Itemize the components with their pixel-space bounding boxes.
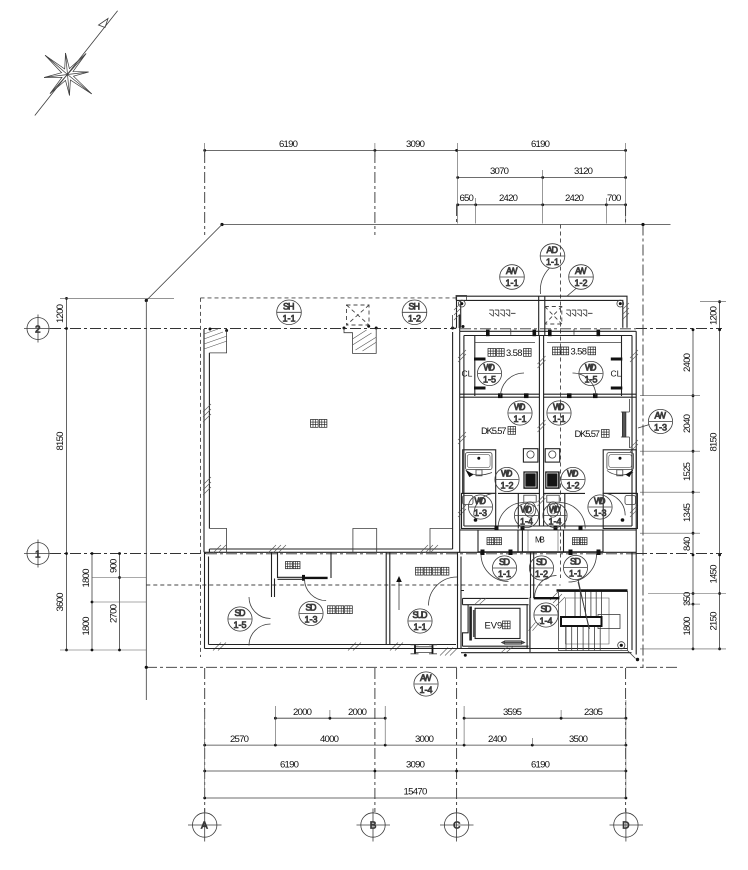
EV area hatches <box>474 598 539 653</box>
svg-text:WD: WD <box>514 402 526 412</box>
right unit: CL partition <box>621 336 623 397</box>
svg-text:3090: 3090 <box>406 139 425 150</box>
symbol WD 1-5 left <box>477 361 501 385</box>
corridor walls right section <box>461 591 530 653</box>
svg-text:2000: 2000 <box>348 707 367 718</box>
svg-text:3.58: 3.58 <box>571 346 588 357</box>
unit entry door posts <box>495 526 583 531</box>
svg-text:6190: 6190 <box>279 139 298 150</box>
pillar B1 (bottom middle) <box>353 529 377 553</box>
pillar C1 (bottom right of store) <box>430 529 453 553</box>
svg-text:1-2: 1-2 <box>575 278 588 288</box>
balcony corner notch <box>456 295 467 300</box>
wall section hatches <box>458 350 638 517</box>
store left wall window hatches <box>203 404 211 495</box>
svg-text:1-5: 1-5 <box>585 375 598 385</box>
svg-text:WD: WD <box>553 402 565 412</box>
svg-text:1-1: 1-1 <box>514 414 527 424</box>
line 6190/3090/6190 <box>205 770 626 772</box>
symbol WD 1-3 left <box>468 495 492 519</box>
svg-text:1-1: 1-1 <box>498 569 511 579</box>
left unit: bedroom/DK wall <box>460 394 540 397</box>
EV label <box>485 620 511 631</box>
line 15470 <box>205 797 626 799</box>
left toilet <box>524 495 536 502</box>
svg-text:SH: SH <box>409 302 421 312</box>
line 2570/4000/3000/2400/3500 <box>205 744 626 746</box>
MB inner lines <box>528 530 558 552</box>
svg-text:1-1: 1-1 <box>283 314 296 324</box>
svg-text:CL: CL <box>462 369 473 379</box>
extension verticals <box>274 706 276 745</box>
svg-text:1-2: 1-2 <box>501 481 514 491</box>
svg-text:2400: 2400 <box>488 734 507 745</box>
svg-text:2420: 2420 <box>499 193 518 204</box>
symbol SD 1-5 <box>228 607 252 631</box>
balcony label right <box>566 310 592 317</box>
apartment outer walls <box>460 331 637 335</box>
balcony railing <box>457 296 628 328</box>
dashed setback lines <box>201 297 457 299</box>
svg-text:1800: 1800 <box>81 569 92 588</box>
store left wall <box>204 329 209 552</box>
svg-text:2570: 2570 <box>230 734 249 745</box>
svg-text:SD: SD <box>499 557 511 567</box>
svg-text:D: D <box>622 821 629 832</box>
svg-text:2150: 2150 <box>709 612 720 631</box>
bottom outer wall left section <box>205 645 462 649</box>
grid 2 horizontal <box>50 328 456 330</box>
stairs landing rail <box>598 615 620 629</box>
svg-text:3090: 3090 <box>406 760 425 771</box>
svg-text:6190: 6190 <box>280 760 299 771</box>
bottom outer wall hatches <box>213 643 458 656</box>
genkan door posts <box>481 550 601 556</box>
svg-text:WD: WD <box>521 505 533 515</box>
grid circle D <box>610 809 644 842</box>
unit entry door arcs <box>498 503 524 529</box>
compass north arrow <box>35 11 118 116</box>
svg-text:1-2: 1-2 <box>567 481 580 491</box>
svg-text:EV9: EV9 <box>485 620 503 631</box>
stairs corner hatch <box>550 591 565 606</box>
svg-text:1-1: 1-1 <box>414 622 427 632</box>
svg-text:SD: SD <box>541 604 553 614</box>
right boundary grid vertical <box>642 225 644 669</box>
svg-text:B: B <box>370 821 377 832</box>
pillar A1 <box>209 529 226 553</box>
room label 洋室3.58帖 right <box>553 346 596 357</box>
left boundary <box>145 301 147 701</box>
grid circle 2 <box>24 315 52 343</box>
svg-text:3595: 3595 <box>503 707 522 718</box>
svg-text:1-4: 1-4 <box>540 616 553 626</box>
svg-text:DK5.57: DK5.57 <box>575 428 601 439</box>
symbol AW 1-2 <box>569 265 594 290</box>
grid A vertical <box>204 152 206 235</box>
balcony divider / PS shaft <box>539 296 545 335</box>
stairs <box>559 592 628 651</box>
svg-text:15470: 15470 <box>404 787 428 798</box>
left stove <box>523 471 538 488</box>
svg-text:1200: 1200 <box>55 304 66 323</box>
room label 共用玄関 <box>416 567 449 575</box>
symbol SH 1-1 <box>277 300 302 325</box>
symbol WD 1-3 right <box>588 495 612 519</box>
grid A wall continues down <box>205 553 209 649</box>
bedroom wall door posts <box>498 393 598 398</box>
inner dim 1800/1800 <box>91 554 93 651</box>
SD1-1 leader to stairs <box>578 579 589 629</box>
left toilet room walls <box>498 493 539 528</box>
svg-text:1-4: 1-4 <box>549 517 562 527</box>
symbol SD 1-2 <box>529 556 553 580</box>
svg-text:CL: CL <box>611 369 622 379</box>
svg-text:DK5.57: DK5.57 <box>481 425 507 436</box>
corridor door arcs <box>481 554 509 582</box>
left washroom <box>462 493 496 528</box>
symbol AW 1-1 <box>500 265 525 290</box>
symbol WD 1-1 left <box>508 401 532 425</box>
grid D vertical <box>625 205 627 224</box>
svg-text:1-1: 1-1 <box>569 569 582 579</box>
svg-text:2: 2 <box>35 325 41 336</box>
svg-text:1-3: 1-3 <box>654 423 667 433</box>
svg-text:SD: SD <box>570 557 582 567</box>
elevator sill <box>505 641 522 644</box>
svg-text:1800: 1800 <box>81 617 92 636</box>
left unit bath room <box>463 450 496 494</box>
room label 盤室 <box>286 562 301 569</box>
svg-text:6190: 6190 <box>531 760 550 771</box>
kyoyo-genkan door arc <box>429 577 458 606</box>
svg-text:3600: 3600 <box>55 593 66 612</box>
window recess lines <box>475 342 622 344</box>
symbol SD 1-1 left <box>492 556 516 580</box>
svg-text:2000: 2000 <box>293 707 312 718</box>
hall/kyoyo divider wall <box>531 553 534 599</box>
stairs section diagonal <box>578 582 590 629</box>
svg-text:WD: WD <box>475 496 487 506</box>
CL door posts <box>474 358 622 390</box>
svg-text:1450: 1450 <box>709 565 720 584</box>
storefront step at C2 <box>453 315 459 328</box>
svg-text:700: 700 <box>607 193 621 204</box>
svg-text:WD: WD <box>594 496 606 506</box>
bottom right corner cut <box>628 651 636 659</box>
grid 1 horizontal <box>50 553 206 555</box>
grid C vertical <box>456 205 458 224</box>
svg-text:1-5: 1-5 <box>483 375 496 385</box>
AD leader arc <box>540 268 549 294</box>
room label DK5.57帖 right <box>575 428 610 439</box>
room label 風除室 <box>328 606 353 614</box>
svg-text:C: C <box>453 821 460 832</box>
svg-text:WD: WD <box>484 363 496 373</box>
dashed X box top <box>347 305 370 325</box>
store/apartment party wall <box>453 315 460 552</box>
svg-text:1-3: 1-3 <box>474 508 487 518</box>
svg-text:3500: 3500 <box>569 734 588 745</box>
bedroom door arcs <box>501 373 597 397</box>
left tub <box>465 453 492 470</box>
right unit: bedroom/DK wall <box>544 394 637 397</box>
dim line 650/2420/2420/700 <box>458 204 626 206</box>
left kitchen sink <box>523 449 538 462</box>
symbol AW 1-3 <box>648 409 672 433</box>
svg-text:SD: SD <box>536 557 548 567</box>
right unit bath room <box>603 450 636 494</box>
svg-text:840: 840 <box>682 537 693 551</box>
right outer wall lower <box>632 530 636 655</box>
bottom site boundary dash-dot <box>146 666 680 668</box>
svg-text:1-5: 1-5 <box>234 620 247 630</box>
up arrow <box>398 580 400 610</box>
玄関 label right <box>573 538 588 545</box>
svg-text:1-3: 1-3 <box>594 508 607 518</box>
svg-text:1-2: 1-2 <box>408 314 421 324</box>
dim line 6190/3090/6190 <box>205 149 626 151</box>
svg-text:1: 1 <box>35 550 41 561</box>
svg-text:1-1: 1-1 <box>546 257 559 267</box>
svg-text:8150: 8150 <box>55 432 66 451</box>
svg-text:650: 650 <box>460 193 474 204</box>
store bottom wall <box>204 549 636 552</box>
玄関 label left <box>487 538 502 545</box>
svg-text:1200: 1200 <box>709 306 720 325</box>
bansitsu door arc <box>305 579 327 601</box>
pillar A2 <box>209 331 226 353</box>
entrance window in bottom wall <box>415 647 434 653</box>
symbol WD 1-2 right <box>561 467 585 491</box>
grid B vertical <box>374 152 376 235</box>
right toilet <box>547 495 559 502</box>
grid circle C <box>440 809 474 842</box>
dim line 3070/3120 <box>458 177 626 179</box>
svg-text:SD: SD <box>235 608 247 618</box>
svg-text:MB: MB <box>535 536 545 545</box>
symbol WD 1-4 left <box>514 503 538 527</box>
top boundary line <box>222 224 671 226</box>
svg-text:3120: 3120 <box>574 166 593 177</box>
diagonal corner <box>146 225 222 301</box>
balcony corner posts <box>458 300 465 307</box>
extension lines <box>457 143 459 224</box>
svg-text:AW: AW <box>575 266 587 276</box>
symbol AW 1-4 <box>414 672 438 696</box>
right outer wall window <box>622 412 626 437</box>
bansitsu room <box>278 553 332 580</box>
symbol SD 1-1 right <box>563 555 587 579</box>
right stove <box>545 471 560 488</box>
left unit: CL partition <box>474 336 476 397</box>
store bottom wall hatches <box>213 545 438 553</box>
room SD1-5 right wall with double door <box>271 553 273 598</box>
svg-text:WD: WD <box>501 469 513 479</box>
room label DK5.57帖 left <box>481 425 516 436</box>
right washroom <box>603 493 637 528</box>
svg-text:2305: 2305 <box>584 707 603 718</box>
svg-text:1525: 1525 <box>682 462 693 481</box>
party wall between units <box>539 336 543 527</box>
店舗 label <box>311 420 327 428</box>
newel post <box>618 642 625 649</box>
svg-text:3.58: 3.58 <box>506 347 523 358</box>
PS dashed X box <box>545 307 562 325</box>
bottom outer wall right section <box>461 649 632 653</box>
symbol AD 1-1 <box>540 244 565 269</box>
svg-text:2040: 2040 <box>682 414 693 433</box>
stairs top wall <box>557 589 628 591</box>
pillar B2 (top middle) <box>344 328 376 353</box>
svg-text:AW: AW <box>506 266 518 276</box>
svg-text:900: 900 <box>109 559 120 573</box>
fujyoshitsu walls <box>275 553 390 645</box>
EV door bars <box>469 607 472 641</box>
grid circle A <box>188 809 222 842</box>
svg-text:WD: WD <box>567 469 579 479</box>
svg-text:1345: 1345 <box>682 503 693 522</box>
svg-text:1-4: 1-4 <box>520 517 533 527</box>
sliding door posts on top wall <box>486 330 600 337</box>
svg-text:3070: 3070 <box>490 166 509 177</box>
svg-text:SH: SH <box>283 302 295 312</box>
symbol WD 1-1 right <box>547 401 571 425</box>
EV room <box>463 598 529 604</box>
symbol WD 1-4 right <box>543 503 567 527</box>
svg-text:2400: 2400 <box>682 353 693 372</box>
right toilet room walls <box>544 493 585 528</box>
dashed section line vertical <box>560 225 562 579</box>
svg-text:1800: 1800 <box>682 617 693 636</box>
svg-text:1-2: 1-2 <box>535 569 548 579</box>
symbol WD 1-5 right <box>579 361 603 385</box>
symbol WD 1-2 left <box>495 467 519 491</box>
left bath lower part <box>466 471 492 476</box>
EV cab <box>475 608 520 638</box>
svg-text:SD: SD <box>306 603 318 613</box>
grid circle 1 <box>24 540 52 568</box>
svg-text:WD: WD <box>585 363 597 373</box>
grid circle B <box>357 809 391 842</box>
svg-text:1-1: 1-1 <box>553 414 566 424</box>
svg-text:SUD: SUD <box>413 610 429 620</box>
svg-text:WD: WD <box>549 505 561 515</box>
svg-text:1-3: 1-3 <box>305 615 318 625</box>
symbol SUD 1-1 <box>408 609 432 633</box>
dashed section line horizontal <box>146 584 560 586</box>
svg-text:1-1: 1-1 <box>506 278 519 288</box>
svg-text:2700: 2700 <box>109 604 120 623</box>
svg-text:6190: 6190 <box>531 139 550 150</box>
svg-text:AW: AW <box>420 673 432 683</box>
room label 洋室3.58帖 left <box>488 347 531 358</box>
symbol SH 1-2 <box>402 300 427 325</box>
svg-text:AD: AD <box>547 245 559 255</box>
svg-text:AW: AW <box>655 411 667 421</box>
svg-text:A: A <box>201 821 208 832</box>
store top storefront dots <box>209 325 465 332</box>
svg-text:4000: 4000 <box>320 734 339 745</box>
line 2000/2000 and 3595/2305 <box>275 717 385 719</box>
balcony corner hatches <box>454 303 629 320</box>
inner dim 900/2700 <box>119 554 121 651</box>
svg-text:8150: 8150 <box>709 433 720 452</box>
right kitchen sink <box>545 449 560 462</box>
symbol SD 1-3 <box>299 601 323 625</box>
symbol SD 1-4 <box>534 603 558 627</box>
svg-text:1-4: 1-4 <box>420 685 433 695</box>
balcony label left <box>489 310 515 317</box>
svg-text:3000: 3000 <box>415 734 434 745</box>
svg-text:2420: 2420 <box>565 193 584 204</box>
kyouyou genkan walls <box>458 553 462 650</box>
